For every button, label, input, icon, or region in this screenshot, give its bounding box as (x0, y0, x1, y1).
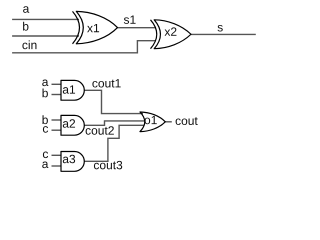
wire cout1 (a1 output to o1) (84, 90, 143, 113)
net label cout2 (86, 126, 114, 135)
xor gate x1 (73, 11, 118, 43)
wire a (input a to x1) (12, 18, 79, 20)
wire a3 input stub c (52, 154, 62, 156)
pin label b (a2 input) (43, 115, 48, 124)
gate label o1 (145, 116, 157, 124)
pin label b (a1 input) (43, 89, 48, 98)
pin label a (a1 input) (42, 80, 48, 87)
wire b (input b to x1) (12, 35, 79, 37)
net label s (218, 25, 223, 32)
xor gate x2 (151, 20, 192, 49)
net label cout3 (94, 161, 122, 170)
and gate a2 (61, 115, 84, 135)
gate label a3 (63, 155, 75, 164)
wire cout (o1 output) (165, 121, 172, 123)
wire s (x2 output) (191, 33, 256, 35)
wire a2 input stub b (52, 119, 62, 121)
or gate o1 (140, 112, 165, 132)
gate label x1 (87, 24, 99, 32)
net label cout1 (92, 79, 120, 87)
wire cin (input cin routed up to x2) (12, 41, 155, 53)
net label cin (22, 40, 36, 49)
wire a3 input stub a (52, 165, 62, 167)
pin label c (a2 input) (43, 126, 48, 133)
gate label a2 (63, 119, 75, 128)
and gate a3 (61, 152, 84, 172)
wire cout2 (a2 output to o1) (84, 121, 145, 125)
net label b (top input) (23, 22, 28, 31)
gate label a1 (63, 85, 75, 93)
wire a1 input stub b (52, 94, 62, 96)
pin label c (a3 input) (43, 152, 48, 159)
net label a (top input) (23, 6, 29, 13)
wire cout3 (a3 output to o1) (84, 125, 144, 161)
gate label x2 (165, 27, 177, 35)
wire a1 input stub a (52, 83, 62, 85)
net label cout (176, 117, 198, 125)
net label s1 (124, 16, 136, 24)
wire a2 input stub c (52, 129, 62, 131)
wire s1 (x1 output to x2 input) (118, 27, 157, 29)
and gate a1 (61, 80, 84, 100)
pin label a (a3 input) (42, 162, 48, 169)
